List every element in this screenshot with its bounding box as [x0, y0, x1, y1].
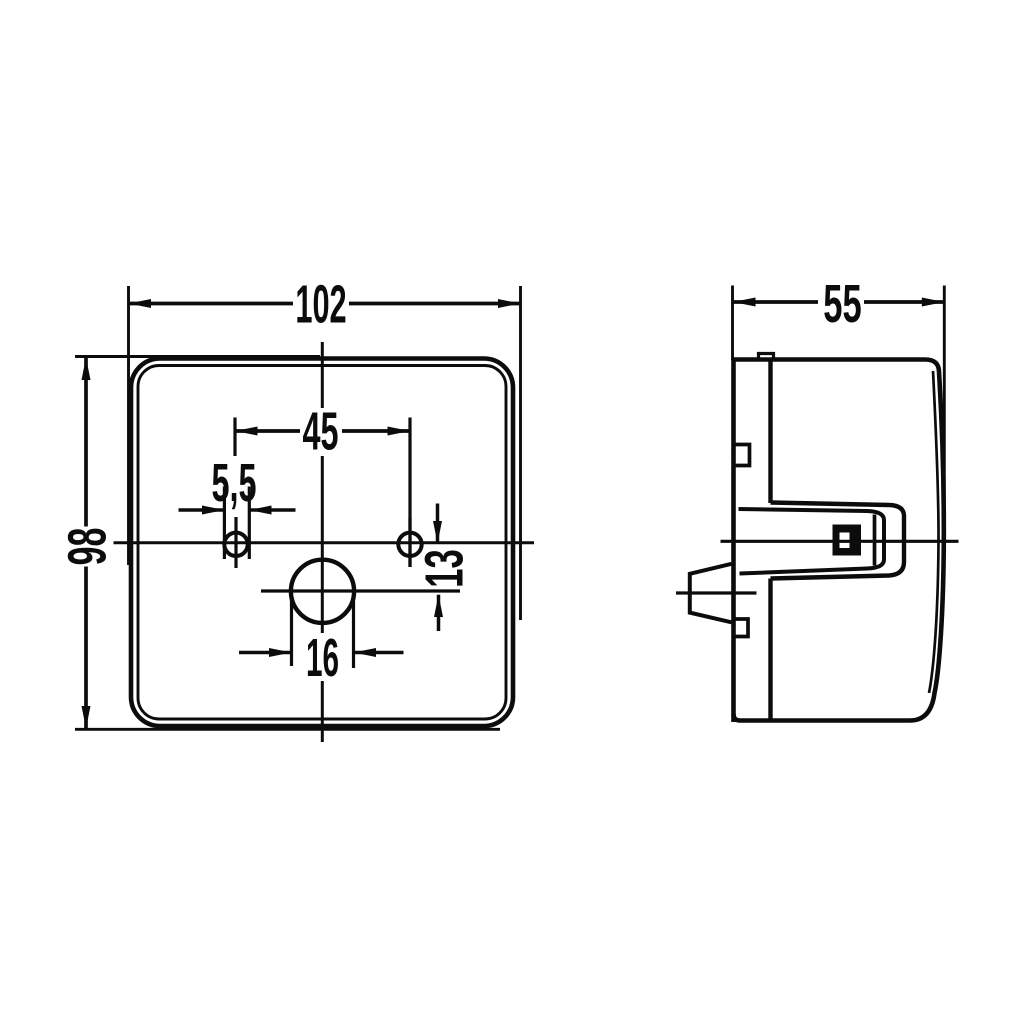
svg-text:5,5: 5,5 [211, 454, 256, 513]
dimension 102 extension line left [127, 286, 130, 565]
horizontal centerline front view [114, 541, 535, 544]
front view lamp outline outer [131, 359, 513, 727]
dimension 5,5 arrow line left [179, 508, 225, 512]
dimension 13 upper arrowhead [433, 521, 442, 543]
svg-text:16: 16 [306, 629, 339, 688]
dimension 55 arrow right [922, 298, 945, 307]
svg-text:13: 13 [414, 549, 475, 587]
dimension 55 arrow left [733, 298, 756, 307]
dimension 98 arrow bottom [82, 706, 91, 729]
horizontal reference line through center hole [261, 589, 460, 592]
svg-text:55: 55 [823, 273, 861, 334]
dimension 45 arrow left [235, 427, 258, 436]
dimension 45 line [235, 429, 410, 433]
center hole circle 16mm [291, 560, 354, 623]
dimension 13 upper arrow line [436, 504, 440, 544]
dimension 5,5 arrowhead right [249, 506, 271, 515]
side view top edge bump [759, 354, 774, 358]
side view left edge [731, 358, 736, 723]
dimension 55 extension line left [731, 286, 734, 361]
svg-text:102: 102 [295, 274, 346, 334]
dimension 102 arrow right [498, 299, 521, 308]
side view clip tab top [734, 445, 750, 466]
dimension 16 arrowhead right [354, 648, 377, 657]
dimension 16 extension lines [292, 597, 354, 668]
connector plug centerline [676, 591, 757, 594]
dimension 16 arrow line right [354, 651, 404, 655]
mounting hole right vertical crosshair [408, 517, 411, 567]
dimension 98 arrow top [82, 358, 91, 381]
dimension 98 extension line bottom [75, 728, 500, 731]
dimension 16 arrow line left [239, 651, 292, 655]
side view inner vertical line [768, 358, 772, 721]
dimension 13 lower arrowhead [434, 595, 443, 617]
dimension 102 arrow left [129, 299, 152, 308]
mounting hole left [224, 533, 247, 556]
dimension 45 arrow right [388, 427, 411, 436]
dimension 55 line [733, 300, 944, 304]
svg-text:98: 98 [56, 528, 117, 566]
dimension 45 extension line left [233, 418, 236, 457]
dimension 102 line [129, 302, 521, 306]
dimension 98 line [84, 358, 88, 729]
mounting hole right [398, 533, 421, 556]
bulb contact block [833, 525, 862, 556]
bulb contact window [840, 533, 850, 549]
bulb holder face line [873, 515, 877, 566]
side view top edge [732, 360, 940, 373]
svg-text:45: 45 [302, 402, 338, 461]
dimension 16 arrowhead left [269, 648, 292, 657]
side view clip tab bottom [734, 619, 749, 637]
dimension 45 extension line right [408, 418, 411, 568]
vertical centerline front view [321, 342, 324, 742]
side view right lens edge outer [734, 372, 944, 721]
bulb holder bracket outer [771, 503, 905, 579]
dimension 5,5 extension lines [224, 487, 249, 560]
mounting hole left vertical crosshair [234, 517, 237, 568]
dimension 98 extension line top [75, 355, 320, 358]
dimension 5,5 arrow line right [249, 508, 295, 512]
connector plug outline [690, 564, 732, 623]
bulb holder bracket inner [739, 509, 885, 574]
side view right lens edge inner [929, 371, 939, 693]
dimension 55 extension line right [943, 286, 946, 521]
side view horizontal centerline [721, 540, 959, 543]
dimension 102 extension line right [519, 286, 522, 620]
dimension 13 lower arrow line [437, 595, 441, 631]
dimension 5,5 arrowhead left [202, 506, 224, 515]
front view lamp lens inner line [138, 366, 506, 720]
